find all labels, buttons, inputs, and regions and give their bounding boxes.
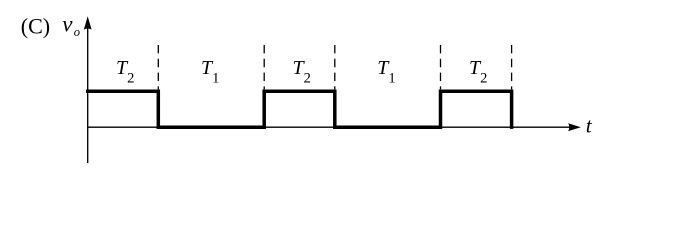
vertical axis arrowhead [84, 16, 92, 29]
svg-text:T1: T1 [377, 57, 395, 86]
dashed divider 5 [511, 45, 513, 89]
svg-text:T2: T2 [116, 57, 134, 86]
svg-text:t: t [586, 113, 593, 137]
svg-text:T2: T2 [469, 57, 487, 86]
dashed divider 2 [263, 45, 265, 89]
horizontal axis line (baseline) [87, 126, 570, 128]
dashed divider 1 [157, 45, 159, 89]
svg-text:(C): (C) [21, 14, 50, 39]
dashed divider 3 [334, 45, 336, 89]
svg-text:T2: T2 [293, 57, 311, 86]
svg-text:T1: T1 [201, 57, 219, 86]
vertical axis line [87, 24, 89, 163]
horizontal axis arrowhead [568, 123, 581, 131]
dashed divider 4 [440, 45, 442, 89]
svg-text:vo: vo [62, 12, 80, 40]
waveform square wave [86, 91, 512, 129]
